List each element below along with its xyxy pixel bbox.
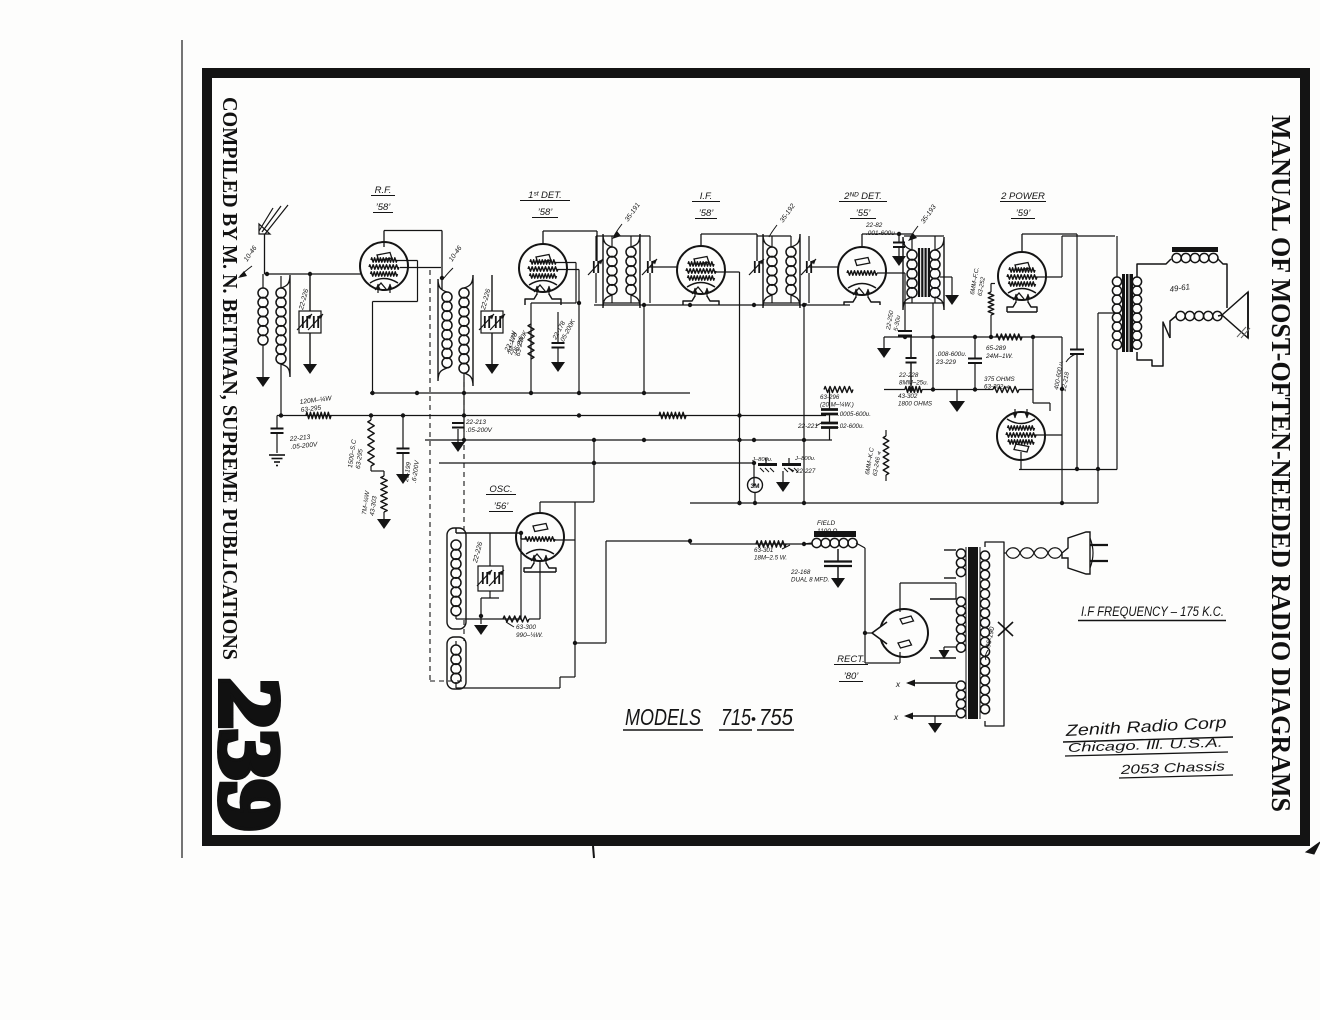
wire 2ndDET plate	[877, 273, 905, 331]
wire POWER screen	[991, 284, 995, 293]
text Zenith Radio Corp	[1063, 715, 1233, 742]
HV center tap arrow	[939, 647, 957, 659]
label 1500-S.C 63-295	[347, 439, 366, 470]
svg-text:x: x	[895, 679, 901, 689]
heater crown V3	[683, 296, 719, 305]
power transformer core	[966, 547, 980, 719]
trimmer C-22-226 rf	[479, 275, 505, 364]
label 22-226 osc	[472, 541, 485, 564]
wire IF tube plate	[714, 272, 742, 505]
svg-text:43-302: 43-302	[898, 393, 918, 400]
registration tick below frame	[593, 846, 594, 858]
wire RF plate to coil	[400, 267, 441, 269]
svg-text:990–¼W.: 990–¼W.	[516, 632, 543, 639]
cap C8 22-228	[906, 337, 917, 392]
bus F to field	[802, 542, 806, 546]
bottom heater line	[1019, 452, 1117, 470]
label I.F. '58'	[692, 191, 720, 219]
text MODELS 715-755	[623, 704, 794, 730]
cap C3 drop	[397, 416, 410, 475]
svg-text:1100 Ω: 1100 Ω	[817, 528, 838, 535]
resistor R7 1800ohm	[905, 387, 922, 393]
label 23-199 .6-200V	[403, 458, 421, 484]
antenna coil secondary to bus B	[279, 372, 283, 418]
ground under C2	[551, 362, 565, 372]
svg-text:3M: 3M	[750, 483, 759, 490]
svg-text:715: 715	[721, 704, 751, 730]
text IF FREQUENCY	[1078, 604, 1226, 621]
output transformer core	[1122, 274, 1133, 352]
label 22-82 .001-600V	[865, 222, 895, 237]
IF2 coil La	[763, 234, 777, 308]
tube V5 2 POWER 59 upper	[998, 252, 1046, 303]
AC plug	[1062, 532, 1108, 574]
field coil wires	[804, 543, 865, 663]
ground under switch	[776, 471, 790, 492]
field coil FIELD 1100 ohm	[812, 531, 857, 548]
switch risers	[754, 458, 789, 486]
svg-text:OSC.: OSC.	[489, 484, 512, 495]
bus F osc feed	[690, 543, 812, 545]
label 22-250 5-30	[885, 310, 903, 333]
osc coil2 wires	[456, 641, 560, 688]
label FIELD 1100	[817, 520, 838, 535]
trimmer IF1 left	[588, 259, 603, 275]
label 22-221	[797, 422, 823, 430]
left footer COMPILED BY	[218, 97, 242, 660]
svg-text:22-221: 22-221	[797, 423, 818, 430]
label 22-228 8MM-25V	[898, 372, 928, 387]
output transformer secondary	[1132, 277, 1141, 349]
vertical x1033	[1033, 337, 1050, 411]
svg-text:22-82: 22-82	[865, 222, 883, 229]
trimmer IF2 right	[801, 259, 816, 275]
power transformer primary	[980, 551, 989, 714]
bus D	[439, 461, 756, 465]
label 7M 43-303	[361, 490, 379, 517]
IF1 coil Lb	[626, 234, 640, 308]
svg-text:J–800ʋ.: J–800ʋ.	[751, 457, 773, 463]
IF3 core	[919, 248, 929, 297]
osc coil top wire	[456, 528, 526, 539]
bus E B+	[690, 501, 1098, 505]
text Chicago Ill USA	[1065, 736, 1228, 756]
svg-text:.008-600ʋ.: .008-600ʋ.	[936, 351, 967, 358]
svg-text:8MM–25ʋ.: 8MM–25ʋ.	[899, 380, 928, 387]
ground IF3 return	[945, 295, 959, 305]
line y337	[884, 335, 1062, 339]
resistor R8 6MM vertical	[988, 292, 994, 339]
svg-text:63-300: 63-300	[516, 624, 536, 631]
label 22-227	[788, 468, 816, 475]
svg-text:’80’: ’80’	[844, 671, 860, 682]
wire 2ndDET grid cap	[862, 232, 912, 246]
page number 239	[202, 678, 298, 831]
svg-text:.0005-600ʋ.: .0005-600ʋ.	[838, 411, 871, 418]
svg-text:MODELS: MODELS	[625, 704, 702, 730]
wire RF grid cap to tuning coil	[384, 231, 444, 291]
label 2 POWER '59'	[1000, 191, 1046, 219]
label .02-600V	[838, 423, 864, 430]
antenna coil L1 secondary	[276, 275, 290, 377]
resistor R5 490M in bus B	[659, 412, 686, 418]
dual cap 22-168	[824, 549, 852, 578]
svg-text:COMPILED BY M. N. BEITMAN, SUP: COMPILED BY M. N. BEITMAN, SUPREME PUBLI…	[218, 97, 242, 660]
svg-text:’58’: ’58’	[376, 202, 392, 213]
svg-text:’59’: ’59’	[1016, 208, 1032, 219]
label 1st DET '58'	[520, 190, 570, 218]
osc plate wire	[553, 502, 577, 677]
wire IF tube grid cap	[701, 234, 757, 261]
frame bottom bar	[202, 835, 1310, 846]
heater bus	[594, 303, 850, 307]
label 63-301 18M	[754, 545, 790, 562]
bus A AVC	[370, 391, 690, 395]
corner arrow mark bottom-right	[1306, 842, 1320, 854]
label J-800V right	[794, 456, 816, 462]
IF3 can verticals	[904, 236, 944, 337]
label 22-168 DUAL8	[790, 569, 829, 584]
label 35-191	[612, 202, 642, 239]
ground under antenna trimmer	[303, 364, 317, 374]
speaker hum coil bar	[1172, 247, 1218, 252]
ground under C4	[451, 442, 465, 452]
tube V8 RECT 80	[872, 609, 928, 657]
page edge line	[181, 40, 183, 858]
osc cathode wires	[560, 539, 692, 677]
trimmer C-22-226 antenna	[297, 275, 323, 364]
label 22-213 .05-200V left	[288, 433, 318, 451]
label .008-600V 23-229	[935, 351, 967, 366]
svg-text:22-227: 22-227	[795, 468, 816, 475]
svg-text:23-229: 23-229	[935, 359, 956, 366]
rect plate top wire	[900, 583, 956, 612]
heater crown V4	[844, 297, 880, 305]
ground under 22-168	[831, 578, 845, 588]
cap C10 22-218	[1070, 234, 1084, 471]
svg-text:24M–1W.: 24M–1W.	[985, 353, 1013, 360]
power transformer primary bracket	[985, 542, 1004, 726]
resistor R11 6MM vertical	[883, 430, 889, 481]
IF1 can verticals	[596, 236, 650, 393]
cap C7 23-229	[968, 337, 982, 390]
ground under C5	[892, 256, 906, 266]
osc grid wire	[540, 440, 596, 513]
wire IF1 grid link	[650, 266, 677, 268]
cap C6 22-250 series	[898, 331, 912, 337]
svg-text:(20 M–¼W.): (20 M–¼W.)	[820, 402, 854, 409]
ground transformer	[928, 716, 942, 733]
cap C4 22-213	[452, 423, 464, 442]
rect plate bottom wire	[865, 652, 900, 663]
wire POWER grid cap	[1022, 234, 1077, 251]
resistor R9 24M	[991, 334, 1062, 340]
svg-text:22-168: 22-168	[790, 569, 811, 576]
osc coil bottom wire	[456, 533, 521, 619]
resistor R4 2M vertical	[528, 318, 534, 359]
resistor R12 990ohm	[503, 561, 540, 622]
speaker hum coil	[1172, 253, 1218, 262]
tube V3 I.F. 58	[677, 246, 725, 297]
label 49-61	[1169, 282, 1191, 294]
cap C2 22-178	[552, 312, 565, 362]
jack 3M	[748, 478, 763, 504]
wire POWER plate to output transformer	[1035, 236, 1117, 277]
tube V4 2nd DET 55	[838, 247, 886, 298]
label 63-300 990	[506, 622, 543, 639]
label 375ohms 63-302	[984, 376, 1015, 391]
svg-text:’58’: ’58’	[699, 208, 715, 219]
heater crown V5	[1007, 302, 1037, 312]
label 22-226 antenna	[298, 288, 311, 311]
svg-text:’58’: ’58’	[538, 207, 554, 218]
wire 1stDET plate	[558, 270, 581, 394]
OSC coil L4	[447, 637, 466, 689]
label 22-176 .05-200K	[503, 325, 530, 357]
power transformer secondary stubs	[930, 550, 956, 658]
label 35-192	[769, 203, 797, 237]
dashed gang line 1	[429, 270, 431, 681]
svg-text:2 POWER: 2 POWER	[1000, 191, 1045, 202]
ground stub G9	[877, 337, 891, 358]
label 2M 63-256	[507, 330, 526, 358]
svg-text:RECT.: RECT.	[837, 654, 865, 665]
svg-text:63-301: 63-301	[754, 547, 773, 554]
speaker cone	[1222, 292, 1248, 338]
label 35-193	[908, 204, 938, 241]
rect cathode stub	[863, 631, 872, 635]
IF2 can verticals	[757, 236, 809, 503]
frame right bar	[1300, 68, 1310, 846]
label R.F. '58'	[371, 185, 395, 213]
svg-text:.02-600ʋ.: .02-600ʋ.	[838, 423, 864, 430]
wire 1stDET screen tie	[531, 263, 576, 394]
svg-text:22-213: 22-213	[465, 419, 486, 426]
OSC padder trimmer	[477, 566, 504, 591]
svg-text:1800 OHMS: 1800 OHMS	[898, 401, 933, 408]
dashed gang line 2	[463, 382, 465, 534]
label RECT '80'	[834, 654, 868, 682]
RF plate coil L2b	[459, 275, 473, 386]
wire y389 left end	[883, 380, 885, 390]
svg-text:R.F.: R.F.	[375, 185, 392, 196]
earth ground under C1	[269, 455, 285, 466]
svg-text:63-296: 63-296	[820, 394, 840, 401]
resistor R2 1500ohm vertical	[368, 416, 374, 472]
output transformer primary	[1112, 277, 1121, 349]
heater crown V7	[524, 563, 556, 572]
antenna coil L1 primary	[258, 274, 268, 352]
frame left bar	[202, 68, 212, 846]
power transformer secondary windings	[956, 549, 965, 718]
svg-text:MANUAL OF MOST-OFTEN-NEEDED RA: MANUAL OF MOST-OFTEN-NEEDED RADIO DIAGRA…	[1266, 115, 1296, 812]
wire 1stDET grid cap	[543, 231, 597, 261]
X lead upper	[895, 679, 956, 689]
cap C1 22-213 drop	[271, 416, 284, 454]
RF plate coil L2a	[438, 279, 452, 381]
bus C	[425, 438, 832, 442]
resistor R1 120M in bus B	[306, 412, 331, 418]
svg-text:’55’: ’55’	[856, 208, 872, 219]
svg-text:.001-600ʋ: .001-600ʋ	[866, 230, 895, 237]
ground under rf trimmer	[485, 364, 499, 374]
label 22-178 .05-200K	[551, 314, 577, 345]
label 43-302 1800ohms	[898, 393, 933, 408]
twisted line cord	[1004, 548, 1062, 559]
resistor R10 375ohm	[993, 387, 1019, 393]
label 10-46 antenna	[238, 245, 259, 278]
OSC coil L3	[447, 528, 466, 629]
wire heater top	[943, 550, 945, 555]
label .0005-600V	[838, 411, 871, 418]
resistor R6 20M	[824, 387, 853, 404]
tube V1 R.F. 58	[360, 242, 408, 293]
resistor R13 18M in bus F	[756, 541, 786, 547]
tube V2 1st DET 58	[519, 244, 567, 295]
label J-800V left	[751, 457, 773, 463]
svg-text:239: 239	[202, 678, 298, 831]
antenna	[259, 205, 288, 274]
label 400-600V 22-218	[1053, 354, 1076, 393]
svg-text:.05-200V: .05-200V	[466, 427, 493, 434]
pencil mark	[1237, 327, 1250, 338]
vertical x933	[932, 337, 934, 390]
output primary bottom drop	[1116, 349, 1118, 470]
jog R2 to R3	[371, 471, 384, 476]
label 22-213 .05-200V mid	[465, 419, 493, 434]
IF3 coil Lb	[930, 237, 944, 310]
right header MANUAL OF	[1266, 115, 1296, 812]
tube V7 OSC 56	[516, 513, 564, 564]
RF coil L2b bottom drop	[463, 373, 465, 440]
X lead lower	[893, 712, 956, 722]
svg-text:I.F.: I.F.	[700, 191, 713, 202]
speaker return vertical	[1096, 313, 1115, 503]
svg-text:I.F FREQUENCY – 175 K.C.: I.F FREQUENCY – 175 K.C.	[1081, 604, 1224, 619]
X mark on primary	[998, 622, 1013, 636]
resistor R3 7M vertical	[381, 476, 387, 519]
svg-text:22-228: 22-228	[898, 372, 919, 379]
ground G10 big	[949, 390, 965, 413]
svg-text:375 OHMS: 375 OHMS	[984, 376, 1015, 383]
speaker voice coil	[1176, 311, 1222, 320]
wire IF2 grid link	[809, 266, 838, 268]
electrolytic 22-221	[821, 403, 838, 440]
svg-text:’56’: ’56’	[494, 501, 510, 512]
frame top bar	[202, 68, 1310, 78]
heater crown V2	[525, 294, 561, 305]
trimmer IF1 right	[642, 259, 657, 275]
svg-text:63-302 ⫷: 63-302 ⫷	[984, 384, 1010, 391]
ground osc	[474, 625, 488, 635]
svg-text:x: x	[893, 712, 899, 722]
svg-text:18M–2.5 W.: 18M–2.5 W.	[754, 555, 787, 562]
svg-text:65-289: 65-289	[986, 345, 1006, 352]
label 65-289 24M-1W	[985, 345, 1013, 360]
switch contact 2	[782, 465, 801, 473]
label 120M 63-295	[299, 395, 333, 414]
ground under antenna coil	[256, 352, 270, 387]
line y389	[884, 387, 1033, 391]
cap C5 22-82	[893, 234, 905, 256]
label 63-296 20M	[820, 394, 854, 409]
svg-text:DUAL 8 MFD.: DUAL 8 MFD.	[791, 577, 829, 584]
trimmer IF2 left	[749, 259, 764, 275]
svg-text:1ˢᵗ DET.: 1ˢᵗ DET.	[528, 190, 562, 201]
speaker frame outline	[1137, 259, 1227, 366]
IF3 coil La	[903, 237, 917, 310]
label 22-226 rf	[480, 288, 493, 311]
svg-text:J–800ʋ.: J–800ʋ.	[794, 456, 816, 462]
label 95-190	[985, 626, 996, 660]
svg-text:755: 755	[759, 704, 793, 730]
wire antenna node to RF grid	[265, 272, 362, 276]
vertical x1062	[1035, 337, 1064, 503]
osc trimmer wires	[479, 533, 499, 624]
text 2053 Chassis	[1119, 758, 1233, 778]
bus B B-line	[277, 413, 826, 417]
tube V6 2 POWER 59 lower	[997, 409, 1045, 460]
IF1 coil La	[603, 234, 617, 308]
switch contact 1	[758, 465, 777, 473]
label OSC '56'	[486, 484, 516, 512]
label 6MM-F.C 63-252	[969, 266, 988, 296]
label 10-46 rf coil	[444, 245, 464, 278]
label 6MM-F.C 63-246	[864, 447, 883, 477]
wire RF screen tie	[373, 261, 418, 394]
label 2nd DET '55'	[839, 191, 887, 219]
dashed gang line 3	[430, 620, 464, 681]
ground under R3	[377, 519, 391, 529]
wire IF3 secondary return	[940, 277, 952, 295]
svg-text:2ᴺᴰ DET.: 2ᴺᴰ DET.	[843, 191, 882, 202]
svg-text:FIELD: FIELD	[817, 520, 835, 527]
ground under C3	[396, 474, 410, 484]
IF2 coil Lb	[786, 234, 800, 308]
